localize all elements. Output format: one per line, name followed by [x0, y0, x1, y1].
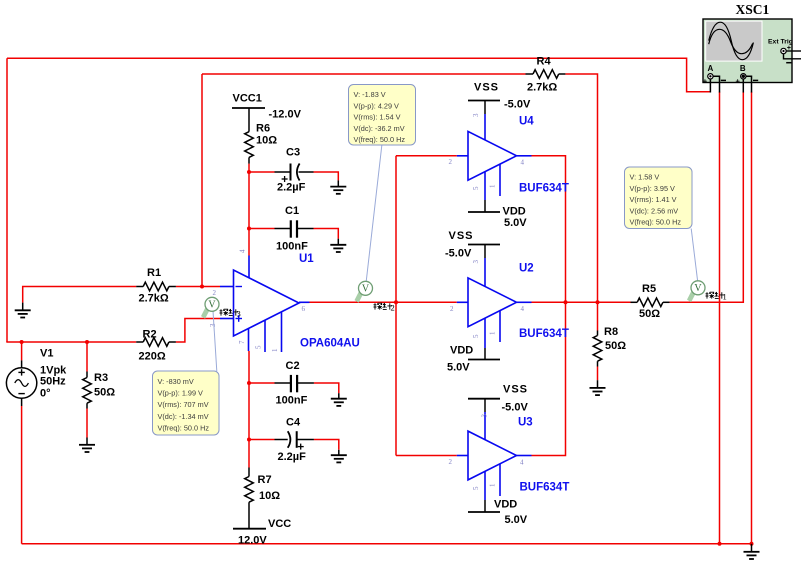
capacitor C1 100nF [275, 220, 314, 237]
VSS bar U4 [468, 100, 500, 102]
node: R1/feedback junction [200, 285, 204, 289]
svg-text:VSS: VSS [449, 230, 474, 242]
probe 3 icon [201, 297, 219, 318]
ground at R1 left [15, 303, 31, 318]
node: C3 junction [247, 170, 251, 174]
svg-text:V(dc): -1.34 mV: V(dc): -1.34 mV [158, 412, 209, 421]
wire: R2 right step up to opamp pin3 [176, 319, 220, 343]
svg-text:VSS: VSS [474, 82, 499, 94]
svg-text:50Ω: 50Ω [94, 387, 115, 399]
svg-text:V(rms): 707 mV: V(rms): 707 mV [158, 400, 209, 409]
svg-text:V(freq): 50.0 Hz: V(freq): 50.0 Hz [630, 218, 682, 227]
svg-text:3: 3 [472, 113, 480, 117]
svg-text:U1: U1 [299, 253, 314, 265]
ext trig - stub wire [784, 54, 802, 59]
svg-text:R7: R7 [258, 474, 272, 486]
probe leader line 3 [213, 311, 217, 371]
svg-text:1: 1 [489, 184, 497, 188]
U2 pin 1 stub [499, 311, 501, 343]
A minus mark [721, 79, 726, 81]
wire: R1 right to opamp pin2 [176, 286, 220, 288]
svg-text:5.0V: 5.0V [447, 362, 470, 374]
U1 pin 4 stub [248, 256, 250, 278]
svg-text:B: B [740, 64, 746, 73]
svg-text:5: 5 [472, 486, 480, 490]
svg-text:V(rms): 1.41 V: V(rms): 1.41 V [630, 195, 677, 204]
resistor R1 2.7k horizontal [136, 282, 176, 291]
svg-text:5: 5 [472, 334, 480, 338]
svg-text:220Ω: 220Ω [139, 351, 166, 363]
resistor R5 50 horizontal [631, 298, 670, 307]
svg-text:2: 2 [213, 289, 217, 297]
U1 pin 2 stub [220, 286, 234, 288]
scope trace B [709, 29, 753, 53]
svg-text:V(p-p): 3.95 V: V(p-p): 3.95 V [630, 184, 676, 193]
svg-text:VDD: VDD [450, 345, 473, 357]
svg-text:R6: R6 [256, 123, 270, 135]
op-amp U1 triangle [234, 270, 300, 336]
VCC 12V symbol [233, 528, 266, 530]
svg-text:U4: U4 [519, 116, 534, 128]
svg-text:4: 4 [521, 305, 525, 313]
svg-text:2: 2 [449, 158, 453, 166]
U3 pin 3 stub [484, 412, 486, 440]
capacitor C4 2.2uF polarized [275, 431, 314, 449]
B minus mark [753, 79, 758, 81]
svg-text:1: 1 [271, 348, 279, 352]
svg-text:2: 2 [449, 458, 453, 466]
svg-text:VDD: VDD [503, 206, 526, 218]
svg-text:R1: R1 [147, 267, 161, 279]
VDD bar U3 [468, 511, 500, 513]
VSS stem U3 [484, 399, 486, 412]
wire: bottom rail [22, 543, 752, 545]
oscilloscope XSC1 body [703, 19, 792, 83]
U2 pin 3 stub [484, 258, 486, 286]
svg-text:6: 6 [302, 305, 306, 313]
wire: C1 branch [249, 228, 275, 230]
svg-text:1: 1 [489, 483, 497, 487]
wire: U2 output to R5 [532, 301, 631, 303]
wire: opamp pin7 down through C2/C4 to R7 [248, 351, 250, 468]
wire: C4 branch [249, 439, 275, 441]
U1 pin 3 stub [220, 318, 234, 320]
probe leader line 2 [366, 146, 382, 282]
node: R3/input junction [85, 340, 89, 344]
svg-text:10Ω: 10Ω [256, 135, 277, 147]
U1 pin 1 stub [281, 312, 283, 352]
wire: C3 branch [249, 171, 275, 173]
wire: opamp output to U2 input [310, 301, 457, 303]
U2 pin 5 stub [484, 318, 486, 348]
svg-text:50Ω: 50Ω [605, 340, 626, 352]
U4 pin 5 stub [484, 172, 486, 200]
node: C4 junction [247, 438, 251, 442]
node: buffer outputs join junction [564, 300, 568, 304]
probe 2 chinese label [374, 302, 395, 312]
connector A [708, 74, 713, 79]
wire: V1 top lead [21, 342, 23, 360]
svg-text:R2: R2 [143, 329, 157, 341]
svg-text:3: 3 [481, 414, 489, 418]
ground bottom right rail [744, 544, 760, 559]
probe readout box 1 (right) [625, 167, 693, 229]
VSS bar U2 [468, 244, 500, 246]
probe leader line 1 [691, 229, 697, 281]
svg-text:1: 1 [489, 331, 497, 335]
node: C1 junction [247, 227, 251, 231]
svg-text:5.0V: 5.0V [504, 217, 527, 229]
svg-text:+: + [703, 76, 708, 85]
wire: V1 bottom to bottom rail [21, 406, 23, 544]
node: B- ground junction [750, 542, 754, 546]
wire: input net bottom horizontal to R2 [6, 341, 136, 343]
svg-text:V(rms): 1.54 V: V(rms): 1.54 V [354, 113, 401, 122]
svg-text:50Hz: 50Hz [40, 376, 66, 388]
svg-text:5.0V: 5.0V [505, 514, 528, 526]
U1 pin 7 stub [248, 329, 250, 351]
VSS bar U3 [468, 398, 500, 400]
svg-text:V(p-p): 1.99 V: V(p-p): 1.99 V [158, 389, 204, 398]
svg-text:BUF634T: BUF634T [520, 482, 570, 494]
svg-text:R4: R4 [537, 56, 552, 68]
svg-text:R8: R8 [604, 326, 618, 338]
wire: R5 right to scope B+ riser [670, 92, 744, 302]
wire: buffer input branch vertical [395, 156, 397, 456]
buffer U2 triangle [468, 278, 517, 327]
svg-text:C2: C2 [286, 360, 300, 372]
svg-text:2.2µF: 2.2µF [277, 182, 306, 194]
svg-text:VCC: VCC [268, 518, 291, 530]
svg-text:V: 1.58 V: V: 1.58 V [630, 173, 660, 182]
wire: top horizontal to scope A+ [7, 58, 710, 92]
svg-text:-5.0V: -5.0V [504, 99, 531, 111]
svg-text:2.2µF: 2.2µF [278, 451, 307, 463]
svg-text:+: + [736, 76, 741, 85]
svg-text:3: 3 [237, 308, 241, 318]
resistor R8 50 vertical [593, 331, 602, 367]
U2 pin 4 stub [517, 301, 532, 303]
U4 pin 2 stub [457, 155, 468, 157]
svg-text:C4: C4 [286, 417, 301, 429]
node: V1/input junction [20, 340, 24, 344]
svg-text:V: -1.83 V: V: -1.83 V [354, 90, 386, 99]
node: R4/R8 output junction [596, 300, 600, 304]
buffer U3 triangle [468, 431, 517, 480]
svg-text:VDD: VDD [494, 499, 517, 511]
wire: feedback vertical x=202 [201, 74, 203, 287]
svg-text:4: 4 [239, 249, 247, 253]
svg-text:100nF: 100nF [276, 395, 308, 407]
VSS stem U2 [484, 245, 486, 259]
U4 pin 4 stub [517, 155, 532, 157]
VDD stem U4 [484, 200, 486, 212]
wire: R8 top lead [597, 302, 599, 330]
scope trace A [709, 22, 754, 60]
svg-text:V: -830 mV: V: -830 mV [158, 377, 194, 386]
svg-text:10Ω: 10Ω [259, 490, 280, 502]
ext trig + stub wire [786, 50, 801, 52]
capacitor C2 100nF [275, 375, 314, 392]
svg-text:100nF: 100nF [276, 241, 308, 253]
svg-text:OPA604AU: OPA604AU [300, 338, 360, 350]
resistor R6 10 vertical [245, 132, 254, 164]
U4 pin 3 stub [484, 114, 486, 140]
wire: R1 left to ground corner [23, 287, 137, 303]
wire: scope B- drop to bottom rail [751, 92, 753, 544]
svg-text:V(p-p): 4.29 V: V(p-p): 4.29 V [354, 101, 400, 110]
U3 pin 4 stub [517, 455, 532, 457]
U3 pin 2 stub [457, 455, 468, 457]
svg-text:A: A [708, 64, 714, 73]
U3 pin 5 stub [484, 471, 486, 500]
ground at C1 [330, 239, 346, 252]
probe 1 chinese label [706, 291, 727, 301]
svg-text:XSC1: XSC1 [736, 2, 770, 17]
wire: U3 output to join vertical [532, 302, 566, 455]
svg-text:V1: V1 [40, 348, 53, 360]
svg-text:C1: C1 [285, 205, 299, 217]
svg-text:VSS: VSS [503, 384, 528, 396]
svg-text:C3: C3 [286, 147, 300, 159]
svg-text:R3: R3 [94, 372, 108, 384]
node: buffer input branch junction [394, 300, 398, 304]
wire B- stub [746, 76, 752, 92]
svg-text:5: 5 [472, 186, 480, 190]
ground at C3 [330, 180, 346, 193]
svg-text:7: 7 [238, 340, 246, 344]
probe 3 chinese label [220, 308, 241, 318]
wire: R3 top lead [86, 342, 88, 372]
wire: R8 bottom to ground [597, 367, 599, 381]
U2 pin 2 stub [457, 301, 468, 303]
svg-text:BUF634T: BUF634T [519, 183, 569, 195]
U1 pin 6 stub [299, 301, 310, 303]
node: A- bottom rail junction [718, 542, 722, 546]
ground under R8 [590, 380, 606, 395]
ext trig connector [781, 48, 786, 53]
resistor R4 2.7k horizontal [526, 70, 566, 79]
svg-text:2.7kΩ: 2.7kΩ [527, 82, 557, 94]
VDD stem U3 [484, 500, 486, 512]
svg-text:V(dc): -36.2 mV: V(dc): -36.2 mV [354, 124, 405, 133]
wire: R3 bottom to ground [86, 409, 88, 438]
svg-text:BUF634T: BUF634T [519, 328, 569, 340]
wire A+ stub [709, 79, 711, 93]
svg-text:12.0V: 12.0V [238, 535, 267, 547]
U3 pin 1 stub [499, 464, 501, 496]
probe readout box 2 (top) [349, 85, 416, 146]
svg-text:3: 3 [472, 260, 480, 264]
resistor R3 50 vertical [83, 372, 92, 409]
svg-text:0°: 0° [40, 388, 51, 400]
svg-text:3: 3 [209, 323, 217, 327]
svg-text:-5.0V: -5.0V [502, 402, 529, 414]
wire B+ stub [742, 79, 744, 93]
capacitor C3 2.2uF polarized [275, 164, 314, 183]
svg-text:5: 5 [255, 345, 263, 349]
wire: feedback top horizontal to R4 [202, 73, 526, 75]
wire: R6 bottom to C3/C1 junction and opamp pin4 [248, 164, 250, 256]
U1 pin 5 stub [264, 321, 266, 353]
svg-text:V(freq): 50.0 Hz: V(freq): 50.0 Hz [158, 423, 210, 432]
wire: U4 input horizontal [396, 155, 457, 157]
ground at C4 [331, 450, 347, 463]
svg-text:4: 4 [521, 159, 525, 167]
svg-text:U2: U2 [519, 263, 534, 275]
svg-text:-12.0V: -12.0V [269, 109, 302, 121]
svg-text:2: 2 [450, 305, 454, 313]
connector B [741, 74, 746, 79]
svg-text:U3: U3 [518, 417, 533, 429]
svg-text:2: 2 [391, 302, 395, 312]
VDD bar U4 [468, 211, 500, 213]
probe 1 icon [687, 281, 705, 302]
oscilloscope display [705, 21, 762, 62]
svg-text:VCC1: VCC1 [233, 93, 262, 105]
U1 minus marker [236, 286, 243, 288]
svg-text:V(freq): 50.0 Hz: V(freq): 50.0 Hz [354, 135, 406, 144]
source V1 [21, 360, 23, 368]
probe readout box 3 (left) [153, 371, 220, 435]
svg-text:50Ω: 50Ω [639, 308, 660, 320]
wire: U3 input horizontal [396, 455, 457, 457]
ground under R3 [79, 438, 95, 453]
node: C2 junction [247, 381, 251, 385]
wire: scope A- drop to bottom rail [719, 92, 721, 544]
wire: C2 branch [249, 382, 275, 384]
resistor R2 220 horizontal [136, 338, 176, 347]
U4 pin 1 stub [499, 164, 501, 196]
VSS stem U4 (black part) [484, 101, 486, 115]
svg-text:1: 1 [723, 291, 727, 301]
wire A- stub [713, 76, 719, 92]
VCC1 -12V symbol [232, 108, 265, 132]
buffer U4 triangle [468, 131, 517, 180]
ground at C2 [331, 393, 347, 406]
svg-text:4: 4 [520, 459, 524, 467]
wire: R4 right down to output node [565, 74, 597, 302]
svg-text:2.7kΩ: 2.7kΩ [139, 293, 169, 305]
wire: U4 output to join vertical [532, 156, 566, 302]
wire: input net left border vertical [6, 58, 8, 342]
svg-text:R5: R5 [642, 283, 656, 295]
U1 plus marker [236, 318, 243, 320]
resistor R7 10 vertical [245, 468, 254, 529]
svg-text:V(dc): 2.56 mV: V(dc): 2.56 mV [630, 206, 679, 215]
VDD bar U2 [468, 359, 500, 361]
svg-text:-5.0V: -5.0V [445, 248, 472, 260]
probe 2 icon [355, 281, 373, 302]
VDD stem U2 [484, 348, 486, 360]
